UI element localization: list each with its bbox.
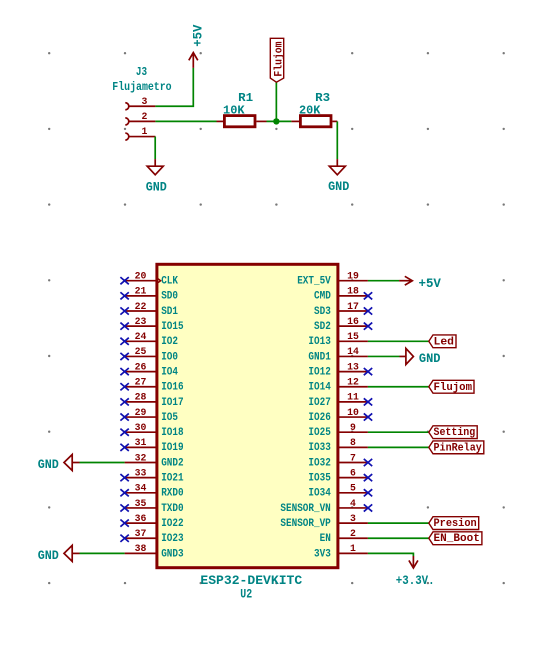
svg-text:15: 15	[347, 332, 359, 343]
wire pin to label Led	[368, 340, 429, 342]
wire pin38 to GND (left)	[80, 552, 125, 554]
wire pin3 to +5V corner	[155, 68, 193, 106]
svg-text:23: 23	[135, 317, 147, 328]
svg-text:GND1: GND1	[308, 351, 331, 363]
svg-text:31: 31	[135, 438, 147, 449]
svg-text:U2: U2	[240, 587, 252, 602]
svg-text:IO12: IO12	[308, 367, 330, 379]
svg-text:1: 1	[350, 544, 356, 555]
svg-text:22: 22	[135, 302, 147, 313]
svg-text:30: 30	[135, 423, 147, 434]
wire pin to label EN_Boot	[368, 537, 429, 539]
wire pin14 to GND	[368, 355, 400, 357]
svg-text:28: 28	[135, 393, 147, 404]
svg-text:Flujametro: Flujametro	[112, 80, 171, 94]
svg-text:IO23: IO23	[161, 533, 184, 545]
U2 pin 10 (IO26)	[308, 408, 372, 424]
svg-text:10K: 10K	[223, 104, 245, 118]
U2 pin 20 (CLK)	[120, 272, 178, 288]
global label Presion	[429, 517, 479, 530]
svg-text:Flujom: Flujom	[273, 41, 285, 76]
U2 pin 13 (IO12)	[308, 362, 372, 378]
U2 pin 31 (IO19)	[120, 438, 183, 454]
svg-text:34: 34	[135, 484, 147, 495]
U2 pin 24 (IO2)	[120, 332, 178, 348]
svg-text:IO16: IO16	[161, 382, 183, 394]
svg-text:IO13: IO13	[308, 336, 331, 348]
svg-text:10: 10	[347, 408, 359, 419]
svg-text:2: 2	[142, 112, 148, 123]
svg-text:8: 8	[350, 438, 356, 449]
svg-text:35: 35	[135, 499, 147, 510]
U2 pin 34 (RXD0)	[120, 484, 183, 500]
U2 pin 2 (EN)	[320, 529, 368, 545]
U2 pin 11 (IO27)	[308, 393, 372, 409]
svg-text:IO21: IO21	[161, 473, 184, 485]
svg-text:IO27: IO27	[308, 397, 330, 409]
ground symbol (left, pin 38)	[38, 545, 80, 563]
global label PinRelay	[429, 441, 484, 454]
svg-text:GND3: GND3	[161, 548, 184, 560]
svg-text:2: 2	[350, 529, 356, 540]
svg-text:PinRelay: PinRelay	[434, 442, 483, 454]
svg-text:SD2: SD2	[314, 321, 331, 333]
wire pin1 down to GND	[154, 137, 156, 160]
svg-text:11: 11	[347, 393, 359, 404]
power symbol +3.3V (bottom)	[396, 556, 435, 588]
svg-text:7: 7	[350, 453, 356, 464]
U2 pin 6 (IO35)	[308, 468, 372, 484]
svg-text:5: 5	[350, 484, 356, 495]
svg-text:24: 24	[135, 332, 147, 343]
U2 pin 21 (SD0)	[120, 287, 178, 303]
U2 pin 27 (IO16)	[120, 378, 183, 394]
U2 pin 30 (IO18)	[120, 423, 184, 439]
svg-text:RXD0: RXD0	[161, 488, 183, 500]
svg-text:IO25: IO25	[308, 427, 331, 439]
svg-text:SD1: SD1	[161, 306, 178, 318]
svg-text:SD0: SD0	[161, 291, 178, 303]
ground symbol (left, pin 32)	[38, 455, 80, 473]
U2 pin 29 (IO5)	[120, 408, 178, 424]
svg-text:27: 27	[135, 378, 147, 389]
svg-text:IO15: IO15	[161, 321, 184, 333]
svg-text:GND: GND	[146, 179, 167, 194]
U2 pin 32 (GND2)	[125, 453, 184, 469]
U2 pin 20 clock mark	[158, 279, 161, 283]
U2 pin 17 (SD3)	[314, 302, 372, 318]
power symbol +5V (right)	[399, 276, 441, 291]
global label Led	[429, 335, 456, 348]
U2 pin 18 (CMD)	[314, 287, 372, 303]
U2 pin 5 (IO34)	[308, 484, 372, 500]
svg-text:EXT_5V: EXT_5V	[297, 276, 331, 288]
wire pin to label Setting	[368, 431, 429, 433]
svg-text:12: 12	[347, 378, 359, 389]
wire junction up to Flujom label	[275, 82, 277, 121]
ground symbol (right of U2)	[400, 348, 441, 365]
svg-text:6: 6	[350, 468, 356, 479]
U2 pin 14 (GND1)	[308, 347, 368, 363]
wire R1 to junction to R3	[267, 120, 292, 122]
svg-text:IO33: IO33	[308, 442, 331, 454]
wire pin2 to R1	[155, 120, 216, 122]
global label Flujom (vertical)	[270, 38, 285, 82]
U2 pin 9 (IO25)	[308, 423, 368, 439]
svg-text:GND: GND	[419, 351, 441, 366]
svg-text:29: 29	[135, 408, 147, 419]
svg-text:IO35: IO35	[308, 473, 331, 485]
svg-text:IO26: IO26	[308, 412, 330, 424]
U2 pin 26 (IO4)	[120, 362, 178, 378]
U2 pin 15 (IO13)	[308, 332, 368, 348]
svg-text:Flujom: Flujom	[434, 382, 473, 394]
ground symbol (under R3)	[328, 159, 349, 194]
U2 pin 7 (IO32)	[308, 453, 372, 469]
svg-text:Presion: Presion	[434, 518, 477, 530]
svg-text:19: 19	[347, 272, 359, 283]
svg-text:3: 3	[142, 97, 148, 108]
svg-text:+3.3V.: +3.3V.	[396, 574, 435, 588]
svg-text:3: 3	[350, 514, 356, 525]
svg-text:38: 38	[135, 544, 147, 555]
svg-text:GND: GND	[328, 179, 349, 194]
svg-text:+5V: +5V	[419, 277, 442, 291]
svg-text:25: 25	[135, 347, 147, 358]
svg-text:TXD0: TXD0	[161, 503, 183, 515]
svg-text:IO0: IO0	[161, 351, 178, 363]
svg-text:21: 21	[135, 287, 147, 298]
U2 pin 3 (SENSOR_VP)	[280, 514, 368, 530]
wire pin to label PinRelay	[368, 446, 429, 448]
wire pin to label Presion	[368, 522, 429, 524]
IC U2 ESP32-DEVKITC body	[157, 264, 338, 567]
svg-text:36: 36	[135, 514, 147, 525]
U2 pin 19 (EXT_5V)	[297, 272, 368, 288]
svg-text:18: 18	[347, 287, 359, 298]
wire pin to label Flujom	[368, 386, 429, 388]
U2 pin 25 (IO0)	[120, 347, 178, 363]
resistor R1 10K	[217, 91, 267, 127]
svg-text:IO34: IO34	[308, 488, 331, 500]
svg-text:IO14: IO14	[308, 382, 331, 394]
svg-text:J3: J3	[136, 65, 147, 79]
svg-text:9: 9	[350, 423, 356, 434]
svg-text:IO32: IO32	[308, 457, 330, 469]
svg-text:14: 14	[347, 347, 359, 358]
U2 pin 1 (3V3)	[314, 544, 368, 560]
U2 pin 23 (IO15)	[120, 317, 184, 333]
global label Flujom	[429, 380, 474, 393]
svg-text:EN_Boot: EN_Boot	[434, 533, 480, 545]
wire pin1 (3V3) to +3.3V	[368, 553, 414, 556]
svg-text:26: 26	[135, 362, 147, 373]
U2 pin 28 (IO17)	[120, 393, 183, 409]
svg-text:IO17: IO17	[161, 397, 183, 409]
svg-text:GND: GND	[38, 457, 59, 472]
svg-text:20: 20	[135, 272, 147, 283]
wire pin19 to +5V	[368, 280, 399, 282]
svg-text:3V3: 3V3	[314, 548, 331, 560]
U2 pin 33 (IO21)	[120, 468, 184, 484]
U2 pin 38 (GND3)	[125, 544, 184, 560]
svg-text:IO18: IO18	[161, 427, 184, 439]
svg-text:IO4: IO4	[161, 367, 178, 379]
global label EN_Boot	[429, 532, 482, 545]
ground symbol (under J3 pin1)	[146, 159, 167, 194]
U2 pin 22 (SD1)	[120, 302, 178, 318]
svg-text:IO5: IO5	[161, 412, 178, 424]
global label Setting	[429, 426, 477, 439]
svg-text:33: 33	[135, 468, 147, 479]
U2 pin 37 (IO23)	[120, 529, 184, 545]
svg-text:CMD: CMD	[314, 291, 331, 303]
connector J3 (Flujametro)	[125, 103, 155, 140]
svg-text:17: 17	[347, 302, 359, 313]
power symbol +5V (top)	[189, 24, 206, 68]
svg-text:SD3: SD3	[314, 306, 331, 318]
svg-text:GND2: GND2	[161, 457, 183, 469]
svg-text:4: 4	[350, 499, 356, 510]
svg-text:20K: 20K	[299, 104, 321, 118]
svg-text:CLK: CLK	[161, 276, 178, 288]
U2 pin 16 (SD2)	[314, 317, 372, 333]
svg-text:SENSOR_VP: SENSOR_VP	[280, 518, 331, 530]
svg-text:IO19: IO19	[161, 442, 183, 454]
svg-text:13: 13	[347, 362, 359, 373]
svg-text:+5V: +5V	[191, 24, 205, 47]
svg-text:32: 32	[135, 453, 147, 464]
junction node	[273, 118, 279, 124]
svg-text:37: 37	[135, 529, 147, 540]
svg-text:1: 1	[142, 127, 148, 138]
wire pin32 to GND (left)	[80, 462, 125, 464]
U2 pin 12 (IO14)	[308, 378, 368, 394]
U2 pin 35 (TXD0)	[120, 499, 183, 515]
U2 pin 36 (IO22)	[120, 514, 183, 530]
svg-text:GND: GND	[38, 548, 59, 563]
U2 pin 8 (IO33)	[308, 438, 368, 454]
resistor R3 20K	[291, 91, 337, 127]
svg-text:16: 16	[347, 317, 359, 328]
svg-text:SENSOR_VN: SENSOR_VN	[280, 503, 330, 515]
svg-text:Setting: Setting	[434, 427, 476, 439]
svg-text:IO2: IO2	[161, 336, 178, 348]
svg-text:Led: Led	[434, 336, 455, 348]
U2 pin 4 (SENSOR_VN)	[280, 499, 372, 515]
svg-text:IO22: IO22	[161, 518, 183, 530]
svg-text:EN: EN	[320, 533, 331, 545]
wire R3 down to GND	[336, 121, 338, 159]
